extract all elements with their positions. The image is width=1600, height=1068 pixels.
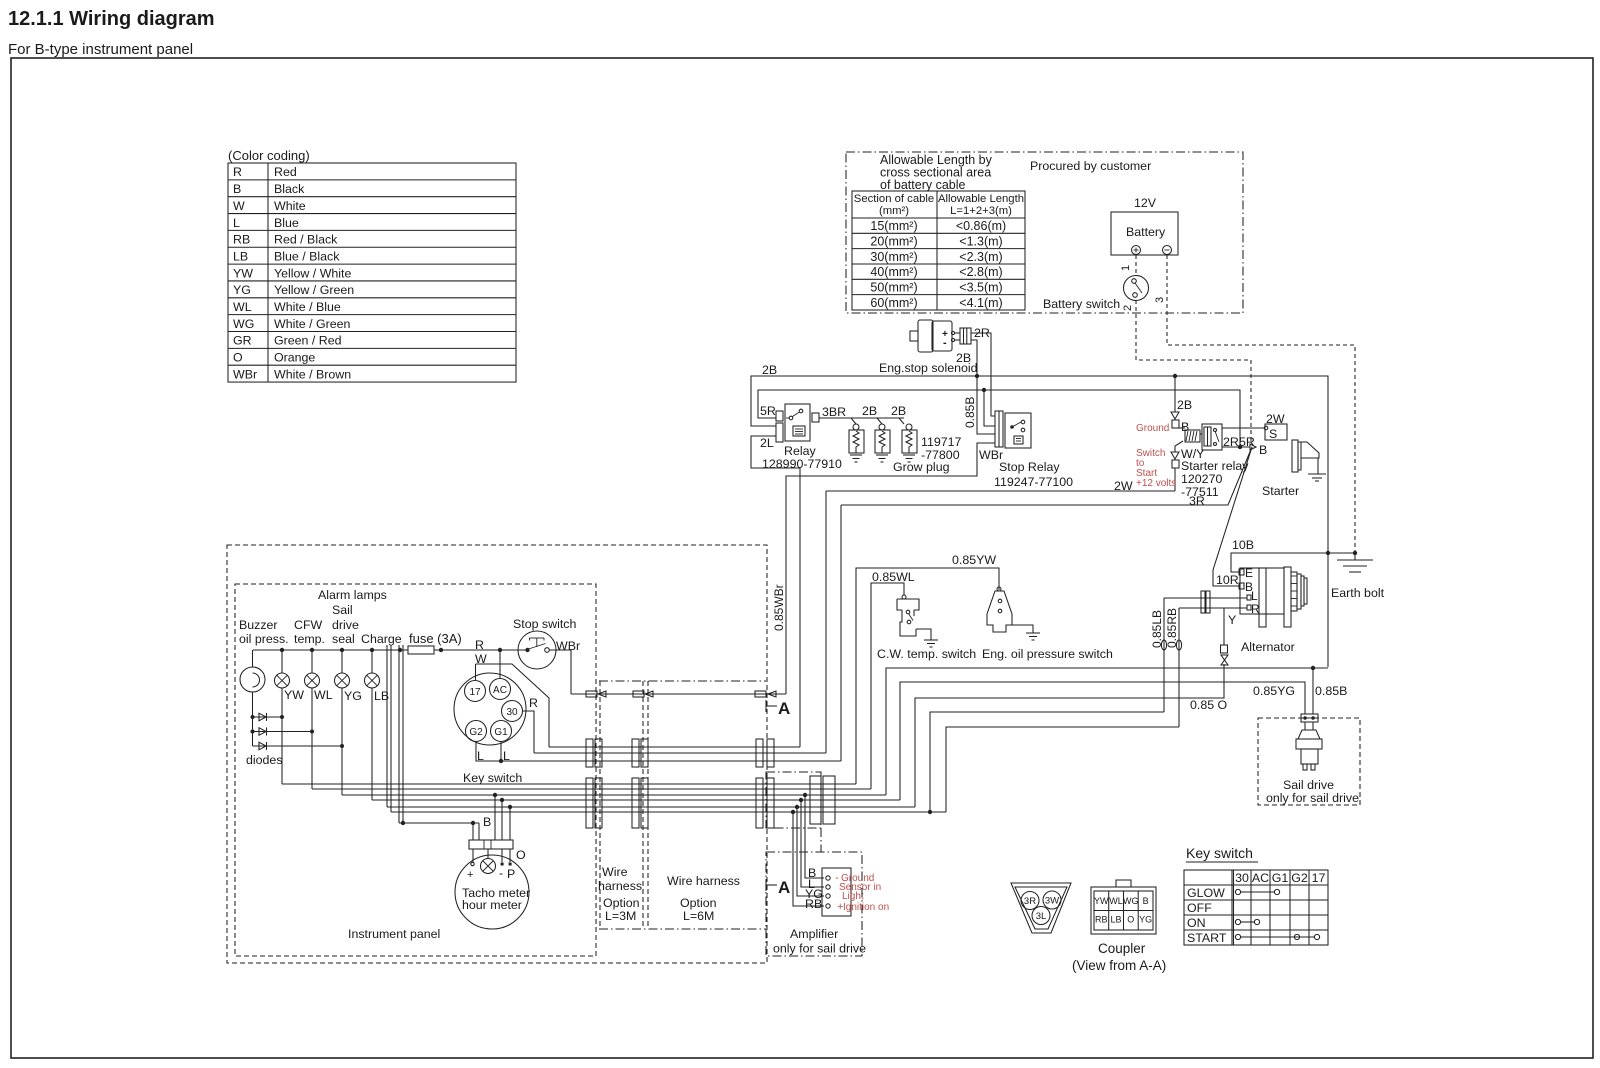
svg-text:Key switch: Key switch [463, 771, 522, 785]
svg-text:<1.3(m): <1.3(m) [959, 235, 1002, 249]
svg-text:30: 30 [1235, 871, 1249, 885]
svg-text:GLOW: GLOW [1187, 886, 1225, 900]
svg-text:Blue: Blue [274, 216, 299, 230]
svg-text:only for sail drive: only for sail drive [1266, 791, 1359, 805]
svg-text:AC: AC [1252, 871, 1269, 885]
svg-text:L: L [1251, 589, 1258, 603]
svg-text:0.85 O: 0.85 O [1190, 698, 1228, 712]
svg-text:O: O [233, 351, 243, 365]
svg-text:(View from A-A): (View from A-A) [1072, 958, 1166, 973]
svg-text:Coupler: Coupler [1098, 941, 1146, 956]
svg-text:30(mm²): 30(mm²) [870, 250, 917, 264]
svg-text:+: + [467, 869, 473, 881]
svg-text:Wire harness: Wire harness [667, 874, 740, 888]
svg-text:temp.: temp. [294, 632, 325, 646]
svg-text:0.85B: 0.85B [963, 397, 977, 428]
svg-text:oil press.: oil press. [239, 632, 289, 646]
svg-text:Earth bolt: Earth bolt [1331, 586, 1385, 600]
svg-text:0.85YW: 0.85YW [952, 553, 996, 567]
svg-text:P: P [507, 867, 515, 881]
svg-text:Blue / Black: Blue / Black [274, 249, 340, 263]
svg-text:Light: Light [842, 891, 864, 902]
svg-text:17: 17 [469, 687, 481, 698]
svg-text:OFF: OFF [1187, 901, 1212, 915]
svg-text:GR: GR [233, 334, 252, 348]
svg-text:G1: G1 [1272, 871, 1289, 885]
svg-text:5R: 5R [1239, 435, 1255, 449]
svg-text:AC: AC [493, 685, 507, 696]
svg-text:G1: G1 [494, 727, 508, 738]
svg-text:Battery: Battery [1126, 225, 1166, 239]
svg-text:-: - [499, 866, 503, 880]
svg-text:3R: 3R [1024, 896, 1036, 907]
svg-text:YG: YG [1139, 915, 1152, 925]
svg-text:For B-type instrument panel: For B-type instrument panel [8, 41, 193, 58]
svg-text:Eng. oil pressure switch: Eng. oil pressure switch [982, 647, 1113, 661]
svg-text:B: B [1143, 896, 1149, 906]
svg-text:YG: YG [233, 283, 251, 297]
svg-text:WBr: WBr [233, 367, 257, 381]
svg-text:3L: 3L [1036, 911, 1047, 922]
svg-text:0.85YG: 0.85YG [1253, 684, 1295, 698]
svg-text:fuse (3A): fuse (3A) [409, 631, 462, 646]
svg-text:3W: 3W [1045, 896, 1059, 907]
svg-text:White / Blue: White / Blue [274, 300, 341, 314]
svg-text:O: O [1127, 915, 1134, 925]
svg-text:Green / Red: Green / Red [274, 334, 342, 348]
svg-text:3R: 3R [1189, 494, 1205, 508]
svg-text:2W: 2W [1114, 479, 1133, 493]
svg-text:Section of cable: Section of cable [854, 193, 934, 205]
svg-text:diodes: diodes [246, 753, 283, 767]
svg-text:(Color coding): (Color coding) [228, 148, 310, 163]
svg-text:O: O [516, 848, 526, 862]
svg-text:Black: Black [274, 182, 305, 196]
svg-text:Sail: Sail [332, 603, 353, 617]
svg-text:<0.86(m): <0.86(m) [956, 219, 1006, 233]
svg-text:Procured by customer: Procured by customer [1030, 159, 1151, 173]
svg-text:ON: ON [1187, 916, 1206, 930]
svg-text:of battery cable: of battery cable [880, 178, 966, 192]
svg-text:-: - [943, 337, 947, 349]
svg-text:CFW: CFW [294, 618, 323, 632]
svg-text:L=3M: L=3M [605, 909, 636, 923]
svg-text:Starter relay: Starter relay [1181, 459, 1249, 473]
svg-text:3BR: 3BR [822, 405, 846, 419]
svg-text:LB: LB [233, 249, 248, 263]
svg-text:WBr: WBr [556, 639, 580, 653]
svg-text:Y: Y [1228, 613, 1236, 627]
svg-text:YW: YW [284, 688, 304, 702]
svg-text:Orange: Orange [274, 351, 315, 365]
svg-text:RB: RB [233, 233, 250, 247]
svg-text:hour meter: hour meter [462, 898, 522, 912]
svg-text:30: 30 [506, 707, 518, 718]
svg-text:B: B [1259, 443, 1267, 457]
svg-text:A: A [778, 878, 790, 897]
svg-text:Option: Option [680, 896, 717, 910]
svg-text:3: 3 [1154, 297, 1166, 303]
svg-text:B: B [233, 182, 241, 196]
svg-text:50(mm²): 50(mm²) [870, 281, 917, 295]
svg-text:Stop switch: Stop switch [513, 617, 576, 631]
svg-text:0.85WBr: 0.85WBr [772, 584, 786, 631]
svg-text:40(mm²): 40(mm²) [870, 265, 917, 279]
svg-text:Amplifier: Amplifier [790, 927, 838, 941]
svg-text:+12 volts: +12 volts [1136, 478, 1176, 489]
svg-text:harness: harness [598, 879, 642, 893]
svg-text:Alarm lamps: Alarm lamps [318, 588, 387, 602]
svg-text:Instrument panel: Instrument panel [348, 927, 440, 941]
svg-text:2R: 2R [974, 326, 990, 340]
svg-text:12.1.1 Wiring diagram: 12.1.1 Wiring diagram [8, 8, 215, 30]
svg-text:0.85B: 0.85B [1315, 684, 1347, 698]
svg-text:5R: 5R [760, 404, 776, 418]
svg-text:W: W [233, 199, 245, 213]
svg-text:<3.5(m): <3.5(m) [959, 281, 1002, 295]
svg-text:YG: YG [344, 689, 362, 703]
svg-text:10B: 10B [1232, 538, 1254, 552]
svg-text:Allowable Length: Allowable Length [938, 193, 1024, 205]
svg-text:G2: G2 [1291, 871, 1308, 885]
svg-text:Buzzer: Buzzer [239, 618, 278, 632]
svg-text:Alternator: Alternator [1241, 640, 1295, 654]
svg-text:<2.8(m): <2.8(m) [959, 265, 1002, 279]
svg-text:LB: LB [1110, 915, 1121, 925]
svg-text:R: R [475, 638, 484, 652]
svg-text:L: L [233, 216, 240, 230]
svg-text:B: B [483, 815, 491, 829]
svg-text:L=6M: L=6M [683, 909, 714, 923]
svg-text:12V: 12V [1134, 196, 1157, 210]
svg-text:Wire: Wire [602, 865, 628, 879]
svg-text:Sail drive: Sail drive [1283, 778, 1334, 792]
svg-text:Red: Red [274, 165, 297, 179]
svg-text:2L: 2L [760, 436, 774, 450]
svg-text:2B: 2B [862, 404, 877, 418]
svg-text:G2: G2 [469, 727, 483, 738]
svg-text:WL: WL [1109, 896, 1123, 906]
svg-text:White / Green: White / Green [274, 317, 351, 331]
svg-text:2W: 2W [1266, 412, 1285, 426]
svg-text:15(mm²): 15(mm²) [870, 219, 917, 233]
svg-text:Yellow / White: Yellow / White [274, 266, 351, 280]
svg-text:L=1+2+3(m): L=1+2+3(m) [950, 205, 1012, 217]
svg-text:White: White [274, 199, 306, 213]
svg-text:2B: 2B [1177, 398, 1192, 412]
svg-text:Battery switch: Battery switch [1043, 297, 1120, 311]
svg-text:YW: YW [233, 266, 253, 280]
svg-text:Grow plug: Grow plug [893, 460, 950, 474]
svg-text:Key switch: Key switch [1186, 845, 1253, 861]
svg-text:Relay: Relay [784, 444, 816, 458]
svg-text:2B: 2B [762, 363, 777, 377]
svg-text:YW: YW [1094, 896, 1109, 906]
svg-text:<4.1(m): <4.1(m) [959, 296, 1002, 310]
svg-text:C.W. temp. switch: C.W. temp. switch [877, 647, 976, 661]
svg-text:RB: RB [1095, 915, 1108, 925]
svg-text:Ignition on: Ignition on [843, 902, 889, 913]
svg-text:Ground: Ground [1136, 423, 1169, 434]
svg-text:<2.3(m): <2.3(m) [959, 250, 1002, 264]
svg-text:0.85WL: 0.85WL [872, 570, 915, 584]
svg-text:WL: WL [233, 300, 252, 314]
svg-text:60(mm²): 60(mm²) [870, 296, 917, 310]
svg-text:drive: drive [332, 618, 359, 632]
svg-text:128990-77910: 128990-77910 [762, 457, 842, 471]
svg-text:2R: 2R [1223, 435, 1239, 449]
svg-text:S: S [1269, 427, 1277, 441]
svg-text:RB: RB [805, 897, 822, 911]
svg-text:Eng.stop solenoid: Eng.stop solenoid [879, 361, 978, 375]
svg-text:(mm²): (mm²) [879, 205, 909, 217]
svg-text:only for sail drive: only for sail drive [773, 942, 866, 956]
svg-text:2B: 2B [891, 404, 906, 418]
svg-text:Yellow / Green: Yellow / Green [274, 283, 354, 297]
svg-text:119717: 119717 [921, 435, 962, 449]
svg-text:WL: WL [314, 688, 333, 702]
svg-text:Starter: Starter [1262, 484, 1299, 498]
svg-text:2: 2 [1122, 305, 1134, 311]
svg-text:A: A [778, 699, 790, 718]
svg-text:1: 1 [1120, 265, 1132, 271]
svg-text:START: START [1187, 931, 1227, 945]
svg-text:R: R [233, 165, 242, 179]
svg-text:Option: Option [603, 896, 640, 910]
svg-text:120270: 120270 [1181, 472, 1222, 486]
svg-text:WG: WG [1123, 896, 1139, 906]
svg-text:WG: WG [233, 317, 254, 331]
svg-text:Charge: Charge [361, 632, 402, 646]
svg-text:seal: seal [332, 632, 355, 646]
svg-text:White / Brown: White / Brown [274, 367, 351, 381]
svg-text:119247-77100: 119247-77100 [994, 475, 1073, 489]
svg-text:Stop Relay: Stop Relay [999, 460, 1060, 474]
svg-text:Red / Black: Red / Black [274, 233, 338, 247]
svg-text:17: 17 [1312, 871, 1326, 885]
svg-text:10R: 10R [1216, 573, 1239, 587]
svg-text:20(mm²): 20(mm²) [870, 235, 917, 249]
svg-text:R: R [529, 696, 538, 710]
